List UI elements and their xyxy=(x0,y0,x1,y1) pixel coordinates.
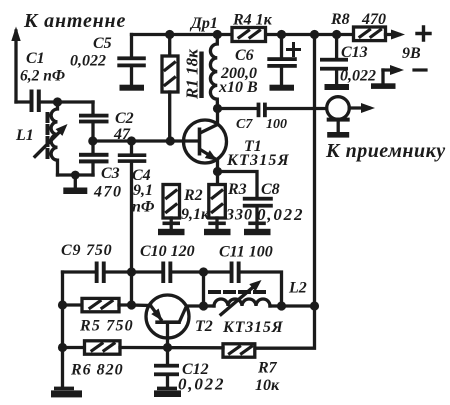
junction dot Dr1 top xyxy=(213,30,222,39)
transistor T1 xyxy=(184,109,227,172)
junction dot tank top xyxy=(199,267,208,276)
svg-text:К приемнику: К приемнику xyxy=(325,140,446,162)
svg-text:С2: С2 xyxy=(115,110,134,127)
svg-text:х10 В: х10 В xyxy=(218,79,258,96)
svg-text:С5: С5 xyxy=(93,35,112,52)
capacitor C1 xyxy=(30,90,41,113)
svg-text:9,1: 9,1 xyxy=(133,182,153,199)
ground under R2 xyxy=(158,222,185,236)
capacitor C9 xyxy=(95,262,106,284)
svg-text:КТ315Я: КТ315Я xyxy=(222,319,284,336)
ground under C8 xyxy=(244,222,271,236)
capacitor C12 xyxy=(154,348,179,388)
ground under C6 xyxy=(270,85,295,91)
resistor R2 xyxy=(163,185,180,230)
svg-text:9,1к: 9,1к xyxy=(181,206,210,223)
wire: T2 emitter lead xyxy=(132,303,151,307)
svg-text:С3: С3 xyxy=(101,165,120,182)
wire: left rail of oscillator xyxy=(61,272,64,387)
junction dot base-R1R2 xyxy=(166,136,175,145)
svg-text:L1: L1 xyxy=(15,127,34,144)
svg-text:R2: R2 xyxy=(183,187,203,204)
junction dot R1 top xyxy=(165,30,174,39)
junction dot C4 line xyxy=(127,267,136,276)
wire: C9 to C10 xyxy=(106,270,163,273)
junction dot C6 top xyxy=(277,30,286,39)
resistor R7 xyxy=(223,344,255,357)
wire: T1 base line xyxy=(93,139,199,142)
node A junction dot xyxy=(53,97,62,106)
wire: node A down to C2 xyxy=(91,102,94,114)
svg-text:С13: С13 xyxy=(341,44,368,61)
ground under jack xyxy=(327,132,349,138)
svg-text:R4 1к: R4 1к xyxy=(232,12,273,29)
node: antenna input lead with up arrow xyxy=(11,27,30,103)
ground under C12 xyxy=(154,387,181,397)
connector jack to receiver xyxy=(327,97,375,132)
junction dot rail bottom xyxy=(310,301,319,310)
inductor L2 (variable) xyxy=(204,280,282,315)
svg-text:R8: R8 xyxy=(330,11,350,28)
svg-text:470: 470 xyxy=(361,11,386,28)
svg-text:0,022: 0,022 xyxy=(340,68,376,85)
svg-text:6,2 пФ: 6,2 пФ xyxy=(20,68,65,85)
junction dot base-C2 xyxy=(88,136,97,145)
wire: grounded bottom rail of input tank xyxy=(58,173,94,176)
junction dot T1 collector xyxy=(213,104,222,113)
plus terminal sign xyxy=(417,27,430,40)
svg-text:47: 47 xyxy=(113,126,131,143)
svg-text:С11 100: С11 100 xyxy=(219,244,273,261)
wire: C4 line down to T2 xyxy=(130,272,133,305)
svg-text:Т2: Т2 xyxy=(195,318,213,335)
svg-text:С8: С8 xyxy=(261,181,280,198)
svg-text:С10 120: С10 120 xyxy=(140,243,195,260)
svg-text:0,022: 0,022 xyxy=(178,375,225,394)
minus output branch xyxy=(371,65,404,89)
resistor R1 xyxy=(162,35,178,142)
choke Dr1 core bar xyxy=(199,52,203,99)
wire: C7 to output jack xyxy=(267,107,327,110)
svg-text:С6: С6 xyxy=(235,47,254,64)
resistor R4 xyxy=(232,28,266,42)
svg-text:L2: L2 xyxy=(288,280,307,297)
svg-text:R5 750: R5 750 xyxy=(79,318,134,335)
wire: rail down to R7 xyxy=(255,306,315,348)
wire: tank right to rail xyxy=(282,304,315,307)
capacitor C13 xyxy=(320,35,348,85)
resistor R3 xyxy=(209,172,226,230)
junction dot T2 collector tank xyxy=(199,301,208,310)
capacitor C11 xyxy=(230,262,241,284)
svg-text:С1: С1 xyxy=(26,50,45,67)
junction dot tank right xyxy=(277,301,286,310)
choke Dr1 xyxy=(210,35,217,109)
svg-text:R7: R7 xyxy=(257,360,278,377)
resistor R6 xyxy=(85,341,121,354)
svg-text:100: 100 xyxy=(266,117,287,132)
ground under R3 xyxy=(204,222,231,236)
wire: C3 bottom to ground rail xyxy=(91,163,94,175)
wire: oscillator coupling line y272 xyxy=(63,270,97,273)
junction dot C13 top xyxy=(332,30,341,39)
svg-text:0,022: 0,022 xyxy=(70,53,106,70)
svg-text:470: 470 xyxy=(93,184,123,201)
inductor L1 (variable) xyxy=(35,102,68,175)
svg-text:КТ315Я: КТ315Я xyxy=(226,152,290,169)
wire: top supply rail xyxy=(132,33,354,36)
svg-text:R1 18к: R1 18к xyxy=(183,49,202,100)
junction dot R5 left xyxy=(58,300,67,309)
resistor R8 xyxy=(354,27,386,41)
wire: right vertical rail xyxy=(313,35,316,307)
capacitor C6 electrolytic xyxy=(267,35,299,85)
svg-text:R3: R3 xyxy=(227,181,247,198)
wire: C2 to base node stem xyxy=(91,123,94,153)
junction dot T1 emitter xyxy=(213,167,222,176)
svg-text:R6 820: R6 820 xyxy=(70,362,124,379)
svg-text:пФ: пФ xyxy=(132,199,155,216)
junction dot T2 base bottom xyxy=(163,343,172,352)
wire: C1 to node A xyxy=(41,100,93,103)
junction dot T2 input xyxy=(127,300,136,309)
junction dot R6 left rail xyxy=(58,343,67,352)
wire: collector to C7 xyxy=(218,107,259,110)
svg-text:Др1: Др1 xyxy=(189,15,218,32)
wire: C10 to C11 xyxy=(172,270,231,273)
minus terminal sign xyxy=(414,68,426,71)
wire: bottom bias line xyxy=(63,346,85,349)
capacitor C7 xyxy=(257,103,267,118)
svg-text:С9 750: С9 750 xyxy=(61,242,112,259)
junction dot ground tap xyxy=(71,171,80,180)
ground under C5 xyxy=(120,85,145,91)
transistor T2 xyxy=(146,295,204,348)
svg-text:9В: 9В xyxy=(402,45,421,62)
capacitor C10 xyxy=(161,262,172,284)
resistor R5 xyxy=(63,298,132,311)
svg-text:10к: 10к xyxy=(255,377,280,394)
ground bottom-left rail xyxy=(51,387,82,398)
junction dot right rail top xyxy=(310,30,319,39)
svg-text:С7: С7 xyxy=(236,117,253,132)
capacitor C2 xyxy=(79,114,109,124)
svg-text:330: 330 xyxy=(225,207,253,224)
wire: C4 down to oscillator coupling line xyxy=(130,163,133,272)
capacitor C8 xyxy=(243,197,273,230)
wire: tank left vertical xyxy=(202,272,205,306)
wire: C11 to tank right corner xyxy=(241,272,282,306)
wire: +9V output arrow xyxy=(386,30,406,40)
capacitor C5 xyxy=(117,35,146,85)
junction dot base-C4 xyxy=(127,136,136,145)
capacitor C4 xyxy=(118,141,147,163)
ground under L1 xyxy=(63,175,87,194)
wire: emitter line to C8 xyxy=(218,172,258,198)
capacitor C3 xyxy=(79,153,109,164)
svg-text:К антенне: К антенне xyxy=(23,10,126,32)
ground under C13 xyxy=(325,84,350,90)
svg-text:0,022: 0,022 xyxy=(257,205,304,224)
wire: R6 to R7 xyxy=(120,346,223,350)
